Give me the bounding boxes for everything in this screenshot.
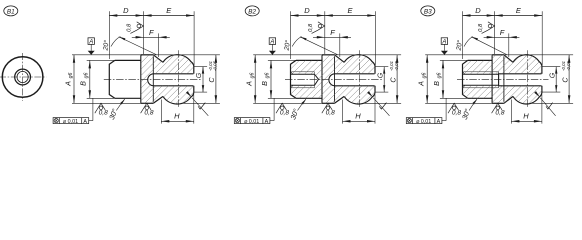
drawing variant B3 group (402, 6, 582, 125)
svg-text:A: A (269, 39, 274, 45)
svg-text:g6: g6 (68, 73, 74, 79)
roughness symbol on cone (482, 22, 495, 34)
svg-text:-0,05: -0,05 (394, 60, 399, 71)
svg-text:0,8: 0,8 (452, 109, 461, 116)
dimension B extension top line (87, 59, 115, 61)
svg-text:⌀ 0,01: ⌀ 0,01 (416, 119, 431, 125)
ball vertical centerline (526, 50, 528, 108)
dimension D/E divider extension line (143, 11, 145, 54)
dimension H extension lines (342, 100, 344, 124)
20 degree angle arc (111, 37, 121, 47)
flat face leader with check (540, 98, 555, 116)
dimension A extension top line (72, 54, 178, 56)
svg-text:0,8: 0,8 (478, 23, 484, 32)
svg-text:g6: g6 (265, 73, 271, 79)
label B1 (4, 6, 18, 16)
front view outer circle (2, 57, 43, 98)
svg-text:A: A (441, 39, 446, 45)
flange left edge (321, 55, 323, 103)
front view horizontal centerline (0, 76, 46, 78)
svg-text:⌀ 0,01: ⌀ 0,01 (63, 119, 78, 125)
internal thread minor lines (463, 73, 499, 75)
dimension E extension line right (541, 11, 543, 65)
flange outline (141, 54, 154, 56)
position tolerance frame (234, 118, 270, 124)
dimension C extension lines (530, 54, 573, 56)
dimension A extension bottom line (72, 102, 141, 104)
svg-text:B: B (260, 81, 269, 86)
roughness 0,8 on B surface (448, 103, 461, 116)
svg-text:g6: g6 (249, 73, 255, 79)
svg-text:F: F (330, 28, 335, 37)
drawing variant B2 group (230, 6, 483, 125)
svg-text:H: H (355, 112, 361, 121)
dimension B extension bottom line (440, 97, 468, 99)
front view chamfer ring (15, 69, 31, 85)
neck bore capsule (499, 74, 542, 86)
position tolerance frame (53, 118, 89, 124)
thread entry chamfer (291, 71, 293, 74)
30 degree leader (298, 99, 306, 110)
neck bore capsule (148, 74, 194, 86)
dimension H line (511, 120, 542, 122)
front view vertical centerline (22, 53, 24, 101)
svg-text:A: A (88, 39, 93, 45)
flange left edge (140, 55, 142, 103)
svg-text:-0,05: -0,05 (213, 60, 218, 71)
svg-text:A: A (83, 119, 87, 125)
20 degree angle line (471, 37, 506, 55)
dimension B line (89, 60, 91, 98)
svg-text:20°: 20° (455, 39, 464, 51)
drawing variant B1 group (0, 6, 302, 125)
dimension C extension lines (363, 54, 402, 56)
flat face leader with check (192, 98, 208, 116)
svg-text:0,8: 0,8 (280, 109, 289, 116)
dimension A line (73, 55, 75, 104)
svg-text:G: G (549, 72, 556, 78)
cone and neck bottom (504, 96, 513, 103)
neck bore capsule (329, 74, 375, 86)
roughness 0,8 on flange surface (492, 103, 505, 116)
dimension B extension bottom line (87, 97, 115, 99)
body cylinder outline (463, 60, 468, 98)
svg-text:F: F (500, 28, 505, 37)
svg-text:D: D (304, 6, 310, 15)
dimension C line (215, 55, 217, 104)
roughness symbol on cone (130, 22, 143, 34)
svg-text:20°: 20° (101, 39, 110, 51)
svg-text:A: A (417, 81, 426, 87)
dimension F line (313, 36, 351, 38)
dimension D/E divider extension line (324, 11, 326, 54)
dimension H extension lines (510, 100, 512, 124)
svg-text:A: A (63, 81, 72, 87)
svg-text:0,8: 0,8 (127, 23, 133, 32)
svg-text:B3: B3 (424, 8, 432, 15)
thread to bore step (498, 72, 500, 88)
20 degree angle arc (292, 37, 302, 47)
dimension D extension line left (290, 11, 292, 59)
30 degree leader (469, 99, 477, 110)
dimension G line (383, 67, 385, 93)
ball outline (163, 55, 194, 104)
svg-text:0,8: 0,8 (495, 109, 504, 116)
flange right face edge (152, 56, 154, 102)
ball outline (344, 55, 375, 104)
svg-text:0,8: 0,8 (99, 109, 108, 116)
svg-text:A: A (437, 119, 441, 125)
dimension G extension lines (375, 66, 388, 68)
dimension G extension lines (194, 66, 207, 68)
roughness 0,8 on B surface (276, 103, 289, 116)
dimension E extension line right (193, 11, 195, 65)
dimension A extension top line (425, 54, 527, 56)
dimension G line (202, 67, 204, 93)
svg-text:g6: g6 (84, 73, 90, 79)
dimension F extension line right (339, 33, 341, 57)
dimension A extension top line (253, 54, 359, 56)
dimension F extension line right (508, 33, 510, 57)
front view bore circle (17, 71, 28, 82)
svg-text:B1: B1 (7, 8, 15, 15)
dimension D extension line left (108, 11, 110, 59)
position tolerance leader (270, 120, 274, 122)
flange outline (492, 54, 504, 56)
internal thread major lines (292, 71, 315, 73)
dimension G extension lines (542, 66, 560, 68)
20 degree angle arc (464, 37, 473, 47)
drill point cone (315, 74, 319, 85)
cone and neck top (153, 55, 163, 63)
ball outline (513, 55, 542, 104)
position tolerance leader (89, 120, 93, 122)
dimension D extension line left (462, 11, 464, 59)
dimension B extension top line (268, 59, 296, 61)
dimension F extension line right (158, 33, 160, 57)
svg-text:B2: B2 (248, 8, 256, 15)
label B2 (245, 6, 259, 16)
flange outline (322, 54, 335, 56)
body cylinder outline (109, 60, 115, 98)
roughness 0,8 on flange surface (141, 103, 154, 116)
svg-text:A: A (265, 119, 269, 125)
datum A flag (88, 38, 94, 45)
dimension D line (463, 15, 495, 17)
datum A flag (269, 38, 275, 45)
position tolerance leader (442, 120, 446, 122)
dimension D/E divider extension line (494, 11, 496, 54)
flat face leader with check (373, 98, 389, 116)
internal thread major lines (464, 71, 499, 73)
dimension A extension bottom line (253, 102, 322, 104)
svg-text:0,8: 0,8 (326, 109, 335, 116)
position tolerance frame (406, 118, 442, 124)
dimension H line (343, 120, 376, 122)
30 degree leader (116, 99, 124, 110)
svg-text:D: D (123, 6, 129, 15)
dimension F line (484, 36, 520, 38)
cone and neck bottom (335, 96, 345, 103)
dimension B line (442, 60, 444, 98)
svg-text:g6: g6 (421, 73, 427, 79)
horizontal centerline (104, 78, 201, 80)
dimension A extension bottom line (425, 102, 492, 104)
datum A flag (441, 38, 447, 45)
dimension E extension line right (374, 11, 376, 65)
dimension B line (270, 60, 272, 98)
cone and neck top (335, 55, 345, 63)
svg-text:G: G (196, 72, 203, 78)
dimension C line (568, 55, 570, 104)
svg-text:H: H (523, 112, 529, 121)
dimension B extension bottom line (268, 97, 296, 99)
dimension A line (254, 55, 256, 104)
dimension A line (426, 55, 428, 104)
cone and neck top (504, 55, 513, 63)
dimension D line (109, 15, 143, 17)
dimension B extension top line (440, 59, 468, 61)
label B3 (421, 6, 435, 16)
flange right face edge (334, 56, 336, 102)
svg-text:0,8: 0,8 (308, 23, 314, 32)
ball vertical centerline (177, 50, 179, 108)
dimension H extension lines (160, 100, 162, 124)
ball vertical centerline (359, 50, 361, 108)
20 degree angle line (119, 37, 157, 55)
svg-text:0,8: 0,8 (144, 109, 153, 116)
svg-text:B: B (432, 81, 441, 86)
roughness 0,8 on flange surface (322, 103, 335, 116)
svg-text:-0,05: -0,05 (566, 60, 571, 71)
svg-text:G: G (377, 72, 384, 78)
svg-text:F: F (149, 28, 154, 37)
svg-text:C: C (388, 77, 397, 83)
svg-text:B: B (79, 81, 88, 86)
dimension D line (291, 15, 325, 17)
svg-text:D: D (475, 6, 481, 15)
svg-text:C: C (207, 77, 216, 83)
dimension E line (495, 15, 543, 17)
body cylinder outline (291, 60, 297, 98)
dimension C line (396, 55, 398, 104)
svg-text:H: H (174, 112, 180, 121)
roughness 0,8 on B surface (95, 103, 108, 116)
horizontal centerline (285, 78, 382, 80)
dimension E line (325, 15, 376, 17)
svg-text:g6: g6 (437, 73, 443, 79)
svg-text:⌀ 0,01: ⌀ 0,01 (244, 119, 259, 125)
roughness symbol on cone (312, 22, 325, 34)
20 degree angle line (300, 37, 338, 55)
cone and neck bottom (153, 96, 163, 103)
dimension C extension lines (181, 54, 220, 56)
flange right face edge (503, 56, 505, 102)
dimension G line (555, 67, 557, 93)
svg-text:C: C (560, 77, 569, 83)
horizontal centerline (457, 78, 549, 80)
internal thread minor lines (291, 73, 315, 75)
thread entry chamfer (463, 71, 465, 74)
dimension E line (144, 15, 195, 17)
dimension F line (132, 36, 170, 38)
svg-text:A: A (245, 81, 254, 87)
svg-text:20°: 20° (283, 39, 292, 51)
dimension H line (161, 120, 194, 122)
flange left edge (491, 55, 493, 103)
